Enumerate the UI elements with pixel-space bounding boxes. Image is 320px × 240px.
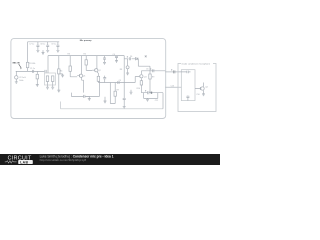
svg-text:R1 68k: R1 68k bbox=[29, 63, 35, 65]
svg-text:R4: R4 bbox=[60, 71, 62, 73]
svg-text:Q3: Q3 bbox=[144, 76, 147, 78]
svg-text:Q4: Q4 bbox=[205, 87, 208, 89]
svg-text:Q1: Q1 bbox=[83, 76, 86, 78]
svg-text:C5: C5 bbox=[119, 80, 121, 82]
svg-text:Q2: Q2 bbox=[98, 70, 101, 72]
svg-text:C13: C13 bbox=[171, 86, 174, 88]
svg-text:R8: R8 bbox=[120, 69, 122, 71]
svg-text:C1 1u: C1 1u bbox=[30, 68, 35, 70]
svg-text:R9: R9 bbox=[152, 76, 154, 78]
svg-text:1kHz: 1kHz bbox=[19, 80, 23, 82]
svg-text:R5: R5 bbox=[84, 54, 86, 56]
svg-text:R7: R7 bbox=[117, 89, 119, 91]
svg-text:C10: C10 bbox=[196, 94, 199, 96]
svg-text:R10: R10 bbox=[137, 88, 140, 90]
svg-text:C9 1u: C9 1u bbox=[51, 44, 56, 46]
svg-text:Mic preamp: Mic preamp bbox=[80, 39, 92, 42]
svg-text:R3: R3 bbox=[68, 54, 70, 56]
svg-text:C4: C4 bbox=[113, 54, 115, 56]
svg-text:C7 1u: C7 1u bbox=[29, 44, 34, 46]
svg-text:C11: C11 bbox=[155, 100, 158, 102]
svg-text:inside condenser microphone: inside condenser microphone bbox=[182, 62, 211, 65]
svg-text:C8 1u: C8 1u bbox=[40, 44, 45, 46]
svg-text:C6: C6 bbox=[146, 68, 148, 70]
svg-text:http://circuitlab.com/c/3khj42: http://circuitlab.com/c/3khj42bjc1y8 bbox=[40, 158, 87, 162]
svg-text:D1: D1 bbox=[130, 56, 132, 58]
svg-text:LAB: LAB bbox=[20, 160, 28, 164]
